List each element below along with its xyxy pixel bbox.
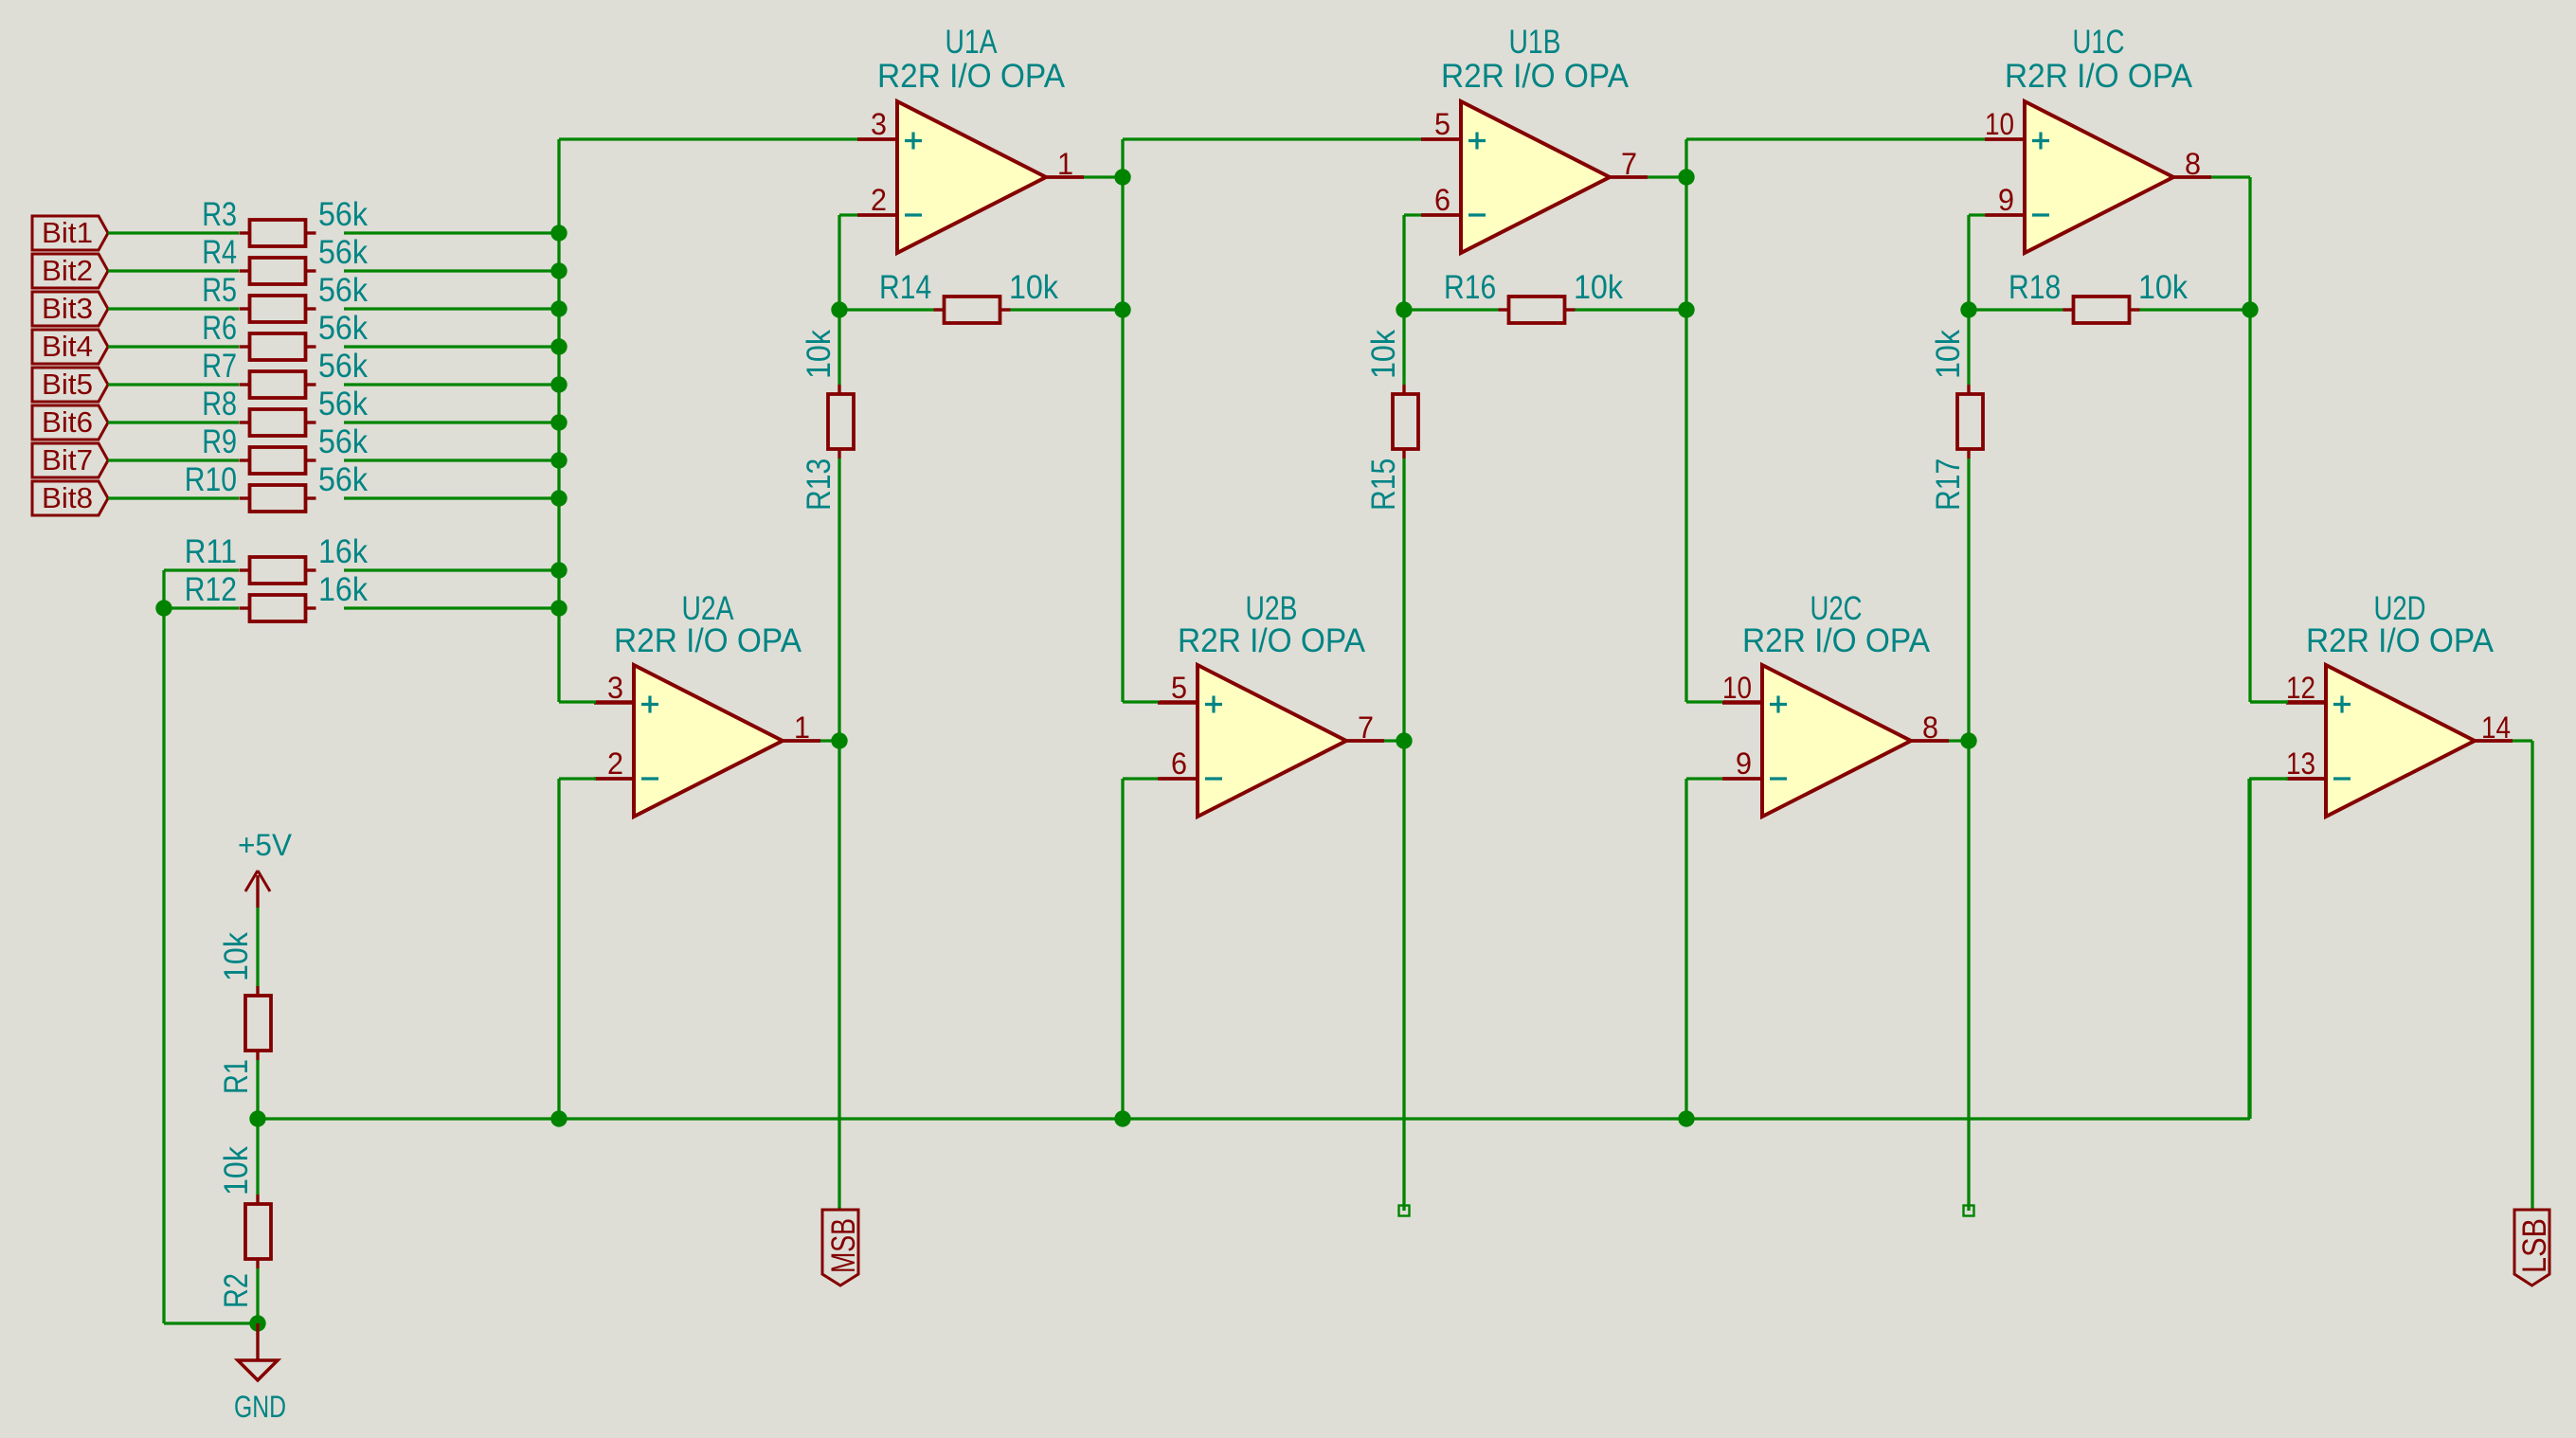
resistor R2 (218, 1146, 271, 1308)
svg-text:13: 13 (2286, 746, 2315, 781)
svg-text:R8: R8 (202, 386, 237, 422)
svg-text:56k: 56k (318, 461, 368, 498)
svg-text:R2R I/O OPA: R2R I/O OPA (877, 58, 1066, 95)
svg-text:R2R I/O OPA: R2R I/O OPA (2005, 58, 2193, 95)
resistor R7 (202, 348, 368, 398)
wire bus to U1A + (559, 137, 857, 140)
net label Bit8 (32, 481, 108, 515)
junction U2C out (1960, 732, 1976, 748)
net label MSB (822, 1210, 862, 1285)
junction bus/Bit3 (550, 300, 567, 316)
wire R8 to bus (344, 421, 559, 423)
junction R16 left (1396, 301, 1412, 317)
junction bus/Bit1 (550, 225, 567, 241)
wire R13 to MSB (crosses rail) (838, 458, 840, 1210)
svg-text:Bit1: Bit1 (42, 216, 93, 249)
wire R17 down to open end (1967, 458, 1970, 1211)
resistor R9 (202, 423, 368, 474)
resistor R6 (202, 310, 368, 360)
svg-text:56k: 56k (318, 234, 368, 271)
wire U1 inverting drop R15 top (1402, 215, 1405, 385)
wire to U1 - pin (1969, 213, 1987, 216)
wire Bit5 to R7 (108, 383, 239, 386)
svg-text:10k: 10k (1574, 269, 1623, 306)
svg-text:6: 6 (1171, 746, 1187, 781)
wire +5V to R1 (256, 908, 259, 986)
wire U2 - to rail (1121, 779, 1124, 1119)
svg-text:R2R I/O OPA: R2R I/O OPA (2306, 622, 2495, 659)
svg-text:10: 10 (1722, 671, 1752, 705)
wire R4 to bus (344, 269, 559, 272)
wire to U2 + pin (1686, 700, 1723, 703)
wire U2D out (2513, 739, 2532, 742)
wire bus to U2A + (559, 700, 596, 703)
wire U2A - left (559, 777, 596, 780)
svg-text:R16: R16 (1444, 269, 1496, 306)
wire U1 inverting drop R13 top (838, 215, 840, 385)
resistor R8 (202, 386, 368, 436)
wire U1B out (1648, 175, 1686, 178)
svg-text:R2R I/O OPA: R2R I/O OPA (614, 622, 802, 659)
wire mid reference rail (258, 1117, 2250, 1120)
junction bus/Bit2 (550, 262, 567, 279)
wire to U2 - pin (1123, 777, 1160, 780)
svg-text:10k: 10k (218, 932, 255, 981)
wire R11/R12 left leg down (162, 570, 165, 1323)
svg-text:10k: 10k (1930, 330, 1967, 379)
svg-text:R2R I/O OPA: R2R I/O OPA (1441, 58, 1630, 95)
resistor R15 (1365, 330, 1418, 511)
svg-text:MSB: MSB (825, 1218, 862, 1273)
wire R10 to bus (344, 496, 559, 499)
svg-text:R9: R9 (202, 423, 237, 460)
junction bus/Bit4 (550, 338, 567, 354)
wire to U2 - pin (2250, 777, 2287, 780)
wire to U2 + pin (2250, 700, 2287, 703)
wire output column vertical (2248, 177, 2251, 702)
svg-text:56k: 56k (318, 272, 368, 309)
wire U2D - left (2249, 777, 2288, 780)
wire fb left (1404, 308, 1499, 311)
svg-text:2: 2 (607, 746, 623, 781)
svg-text:GND: GND (234, 1390, 286, 1424)
svg-text:3: 3 (607, 671, 623, 705)
net label Bit2 (32, 254, 108, 288)
wire output column vertical (1121, 139, 1124, 702)
svg-text:56k: 56k (318, 348, 368, 385)
svg-text:R10: R10 (185, 461, 237, 498)
svg-text:56k: 56k (318, 310, 368, 347)
wire Bit3 to R5 (108, 307, 239, 310)
svg-text:10k: 10k (1009, 269, 1058, 306)
resistor R17 (1930, 330, 1983, 511)
svg-text:R2R I/O OPA: R2R I/O OPA (1742, 622, 1931, 659)
junction bus/R11 (550, 562, 567, 578)
junction on rail (1114, 1110, 1130, 1126)
junction R18 left (1960, 301, 1976, 317)
svg-text:R18: R18 (2009, 269, 2061, 306)
wire left to R11 (164, 568, 239, 571)
svg-text:9: 9 (1998, 183, 2014, 217)
op-amp U2B (1158, 590, 1384, 817)
svg-text:R1: R1 (218, 1059, 255, 1094)
svg-text:5: 5 (1171, 671, 1187, 705)
wire to GND node (164, 1321, 258, 1324)
wire R12 to bus (344, 606, 559, 609)
resistor R1 (218, 932, 271, 1094)
wire Bit8 to R10 (108, 496, 239, 499)
svg-text:R17: R17 (1930, 458, 1967, 511)
svg-text:9: 9 (1736, 746, 1752, 781)
svg-text:Bit2: Bit2 (42, 254, 93, 287)
wire left to R12 (164, 606, 239, 609)
svg-text:10k: 10k (2138, 269, 2188, 306)
svg-text:LSB: LSB (2516, 1218, 2553, 1273)
junction R16 right (1678, 301, 1694, 317)
op-amp U2A (594, 590, 820, 817)
wire to U2 - pin (1686, 777, 1723, 780)
svg-text:U1C: U1C (2073, 24, 2125, 61)
op-amp U1B (1421, 24, 1648, 253)
net label Bit3 (32, 292, 108, 326)
wire R6 to bus (344, 345, 559, 348)
wire to U2 + pin (1123, 700, 1160, 703)
svg-text:R5: R5 (202, 272, 237, 309)
op-amp U1A (857, 24, 1084, 253)
svg-text:5: 5 (1434, 107, 1450, 141)
svg-text:10k: 10k (218, 1146, 255, 1195)
resistor R12 (185, 571, 369, 621)
net label Bit5 (32, 368, 108, 402)
wire U1 inverting drop R17 top (1967, 215, 1970, 385)
wire fb right (2140, 308, 2251, 311)
net label Bit7 (32, 443, 108, 477)
svg-text:10k: 10k (1365, 330, 1402, 379)
svg-text:R14: R14 (879, 269, 931, 306)
svg-text:Bit8: Bit8 (42, 481, 93, 514)
dangling wire end marker (1399, 1206, 1410, 1216)
junction bus/Bit8 (550, 490, 567, 506)
svg-text:16k: 16k (318, 533, 368, 570)
svg-text:10: 10 (1985, 107, 2014, 141)
wire U2D - to rail end (2247, 779, 2250, 1119)
svg-text:Bit6: Bit6 (42, 405, 93, 439)
junction bus/Bit5 (550, 376, 567, 392)
junction R14 left (831, 301, 847, 317)
resistor R5 (202, 272, 368, 322)
wire to U2D + (2250, 700, 2288, 703)
svg-text:R4: R4 (202, 234, 237, 271)
wire R2 to GND node (256, 1268, 259, 1323)
op-amp U2C (1722, 590, 1949, 817)
svg-text:Bit3: Bit3 (42, 292, 93, 325)
wire U2C out (1949, 739, 1969, 742)
wire R9 to bus (344, 458, 559, 461)
svg-text:56k: 56k (318, 423, 368, 460)
wire Bit2 to R4 (108, 269, 239, 272)
junction R14 right (1114, 301, 1130, 317)
wire Bit7 to R9 (108, 458, 239, 461)
wire U1C out (2211, 175, 2250, 178)
wire R11 to bus (344, 568, 559, 571)
junction U2B out (1396, 732, 1412, 748)
svg-text:R12: R12 (185, 571, 237, 608)
net label Bit4 (32, 330, 108, 364)
wire input bus vertical (557, 139, 560, 702)
junction on rail (1678, 1110, 1694, 1126)
resistor R4 (202, 234, 368, 284)
svg-text:2: 2 (871, 183, 887, 217)
svg-text:6: 6 (1434, 183, 1450, 217)
junction R1/R2/rail (249, 1110, 265, 1126)
junction U1 output (1114, 169, 1130, 185)
svg-text:56k: 56k (318, 196, 368, 233)
wire U2A out (820, 739, 839, 742)
dangling wire end marker (1964, 1206, 1974, 1216)
resistor R18 (2009, 269, 2188, 323)
wire fb right (1011, 308, 1124, 311)
junction R2/GND (249, 1315, 265, 1331)
wire to next U1 + (1123, 137, 1421, 140)
wire R1 to mid rail (256, 1060, 259, 1119)
junction bus/R12 (550, 600, 567, 616)
svg-text:+5V: +5V (238, 828, 293, 862)
resistor R10 (185, 461, 369, 512)
svg-text:R6: R6 (202, 310, 237, 347)
svg-text:16k: 16k (318, 571, 368, 608)
wire rail to R2 (256, 1119, 259, 1195)
resistor R14 (879, 269, 1058, 323)
wire U2 - to rail (2248, 779, 2251, 1119)
junction U2A out (831, 732, 847, 748)
junction bus/Bit7 (550, 452, 567, 468)
wire Bit1 to R3 (108, 231, 239, 234)
op-amp U2D (2286, 590, 2513, 817)
resistor R3 (202, 196, 368, 246)
wire to next U1 + (1686, 137, 1985, 140)
wire U2A - to rail (557, 779, 560, 1119)
wire R3 to bus (344, 231, 559, 234)
junction rail/U2A - (550, 1110, 567, 1126)
junction bus/Bit6 (550, 414, 567, 430)
net label LSB (2514, 1210, 2553, 1285)
svg-text:R2R I/O OPA: R2R I/O OPA (1178, 622, 1366, 659)
wire U2 - to rail (1684, 779, 1687, 1119)
wire output column vertical (1684, 139, 1687, 702)
net label Bit1 (32, 216, 108, 250)
op-amp U1C (1985, 24, 2211, 253)
wire R5 to bus (344, 307, 559, 310)
wire U1A out (1084, 175, 1123, 178)
svg-text:U1A: U1A (946, 24, 999, 61)
resistor R13 (801, 330, 854, 511)
ground GND (234, 1323, 286, 1424)
junction R18 right (2242, 301, 2258, 317)
svg-text:Bit5: Bit5 (42, 368, 93, 401)
svg-text:R11: R11 (185, 533, 237, 570)
wire to U1 - pin (1404, 213, 1422, 216)
resistor R11 (185, 533, 369, 584)
svg-text:R7: R7 (202, 348, 237, 385)
svg-text:R13: R13 (801, 458, 838, 511)
wire fb left (1969, 308, 2063, 311)
svg-text:Bit4: Bit4 (42, 330, 93, 363)
junction R11/R12 left (155, 600, 171, 616)
wire fb left (839, 308, 934, 311)
junction U1 output (1678, 169, 1694, 185)
wire fb right (1576, 308, 1687, 311)
net label Bit6 (32, 405, 108, 440)
wire to U1 - pin (839, 213, 857, 216)
wire R7 to bus (344, 383, 559, 386)
svg-text:R15: R15 (1365, 458, 1402, 511)
wire R15 down to open end (1402, 458, 1405, 1211)
svg-text:56k: 56k (318, 386, 368, 422)
resistor R16 (1444, 269, 1623, 323)
svg-text:Bit7: Bit7 (42, 443, 93, 476)
wire Bit6 to R8 (108, 421, 239, 423)
wire U2B out (1384, 739, 1404, 742)
svg-text:10k: 10k (801, 330, 838, 379)
svg-text:12: 12 (2286, 671, 2315, 705)
power +5V (238, 828, 293, 908)
wire U2D out to LSB (2531, 741, 2533, 1210)
svg-text:3: 3 (871, 107, 887, 141)
svg-text:R2: R2 (218, 1273, 255, 1308)
wire Bit4 to R6 (108, 345, 239, 348)
svg-text:R3: R3 (202, 196, 237, 233)
svg-text:U1B: U1B (1509, 24, 1561, 61)
